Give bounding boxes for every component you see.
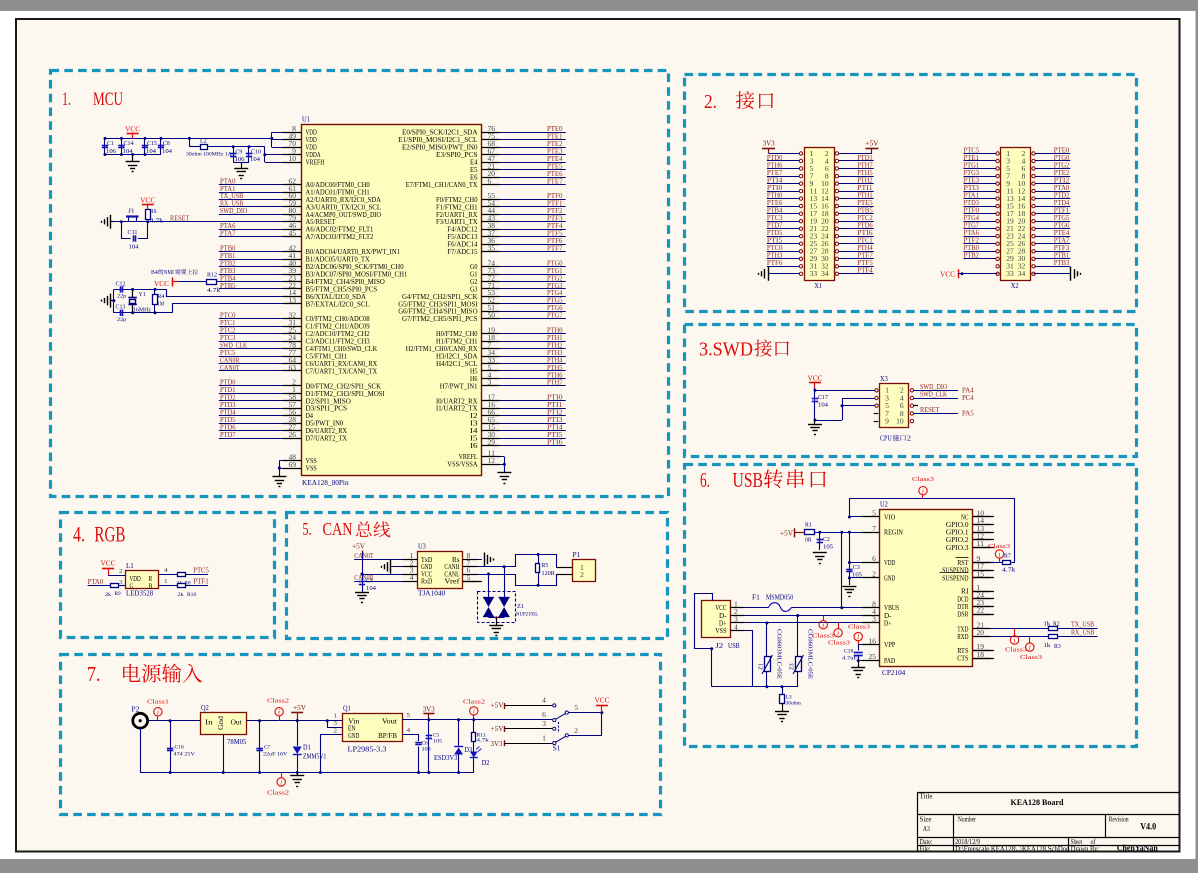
svg-text:H0/FTM2_CH0: H0/FTM2_CH0 [436,331,478,338]
svg-text:4.7k: 4.7k [477,737,490,743]
LED D2 [473,741,475,752]
svg-text:69: 69 [289,462,297,469]
svg-text:22: 22 [977,608,985,615]
wire U1 to port PTF5 [482,236,566,238]
wire U1 to port PTI5 [482,438,566,440]
resistor R4 1M [154,289,156,294]
svg-text:31: 31 [1006,264,1014,271]
svg-text:USB: USB [733,468,764,492]
svg-text:4: 4 [410,575,414,582]
switch S1 arm 1-2 [556,736,566,742]
wire U1 to port PTF0 [482,199,566,201]
svg-text:D2/SPI1_MISO: D2/SPI1_MISO [306,398,351,405]
wire U1 to port PTI4 [482,430,566,432]
svg-text:24: 24 [821,234,829,241]
svg-text:1: 1 [810,151,814,158]
ground Rs [484,553,486,567]
svg-text:5: 5 [574,705,578,712]
svg-text:F1/FTM2_CH1: F1/FTM2_CH1 [436,204,478,211]
svg-text:GPIO.2: GPIO.2 [946,537,969,544]
svg-text:61: 61 [289,186,297,193]
svg-text:E3/SPI0_PCS: E3/SPI0_PCS [436,152,478,159]
svg-text:RTS: RTS [957,648,969,655]
svg-text:2: 2 [119,568,123,575]
svg-text:R1: R1 [805,523,812,529]
wire X1 right pin row 14 [839,258,874,260]
capacitor C17 104 [814,390,816,420]
svg-text:11: 11 [1006,189,1014,196]
svg-text:5: 5 [467,575,471,582]
svg-text:C2: C2 [823,537,830,543]
wire U1 to port PTH3 [482,356,566,358]
svg-text:28: 28 [821,249,829,256]
svg-text:VPP: VPP [884,642,895,649]
X3 pin6 stub [914,405,918,407]
svg-text:ESD3V3: ESD3V3 [434,754,458,762]
svg-text:3: 3 [333,720,337,727]
svg-text:VIO: VIO [884,514,895,521]
svg-text:18: 18 [1018,211,1026,218]
svg-text:4: 4 [900,395,904,402]
section 1 MCU dashed box [51,71,669,497]
svg-text:20: 20 [488,171,496,178]
svg-text:P2: P2 [132,706,140,714]
svg-text:26: 26 [1018,241,1026,248]
svg-text:4: 4 [825,158,829,165]
connector X3 body CPU port [880,384,909,428]
ground X1 [768,267,770,281]
svg-text:B: B [149,583,153,590]
wire VCC to L1 pin2 [108,575,126,577]
svg-text:NMI: NMI [164,270,174,276]
wire net PTA0 to U1 [219,184,302,186]
wire X1 left pin row 11 [767,236,799,238]
svg-text:P1: P1 [573,551,581,559]
ground swd [814,420,816,424]
svg-text:39: 39 [289,268,297,275]
svg-text:+5V: +5V [780,529,793,537]
svg-text:CG0603MLC-05E: CG0603MLC-05E [776,629,782,679]
wire TXD [973,628,1048,630]
svg-text:1: 1 [333,713,337,720]
wire CANH net [463,555,572,568]
LED L1 LED3528 body [126,571,159,589]
svg-text:U2: U2 [880,501,888,509]
svg-text:Q2: Q2 [201,704,209,712]
ground symbol power rail [296,771,299,774]
svg-text:A2/UART0_RX/I2C0_SDA: A2/UART0_RX/I2C0_SDA [306,197,382,204]
svg-text:i: i [822,621,824,629]
svg-text:29: 29 [1006,256,1014,263]
svg-text:33: 33 [1006,271,1014,278]
wire U3 Rs to ground [463,559,482,561]
svg-text:NC: NC [961,514,969,521]
svg-text:U3: U3 [418,543,426,551]
capacitor C18 4.7uF [859,645,880,651]
wire X2 right pin row 13 [1035,251,1070,253]
svg-text:Z3: Z3 [790,663,796,670]
wire X1 right pin row 8 [839,213,874,215]
wire CANL net [463,575,572,586]
wire X2 right pin row 14 [1035,258,1070,260]
wire X1 right pin row 4 [839,183,874,185]
wire net PTB1 to U1 [219,259,302,261]
svg-text:C8: C8 [163,141,170,147]
svg-text:C5/FTM1_CH1: C5/FTM1_CH1 [306,354,348,361]
svg-text:13: 13 [1006,196,1014,203]
capacitor C11 104 [122,222,131,239]
U2 chip body CP2104 [880,510,973,667]
section 2 dashed box [685,75,1137,312]
svg-text:i: i [1014,637,1016,645]
svg-text:C11: C11 [128,230,138,236]
wire VDD stub [849,562,879,564]
wire X2 left pin row 2 [964,168,996,170]
svg-text:19: 19 [1006,219,1014,226]
svg-text:C12: C12 [116,281,126,287]
wire U1 to port PTH0 [482,333,566,335]
svg-text:103: 103 [422,747,431,753]
svg-text:Class2: Class2 [463,699,485,706]
wire X2 right pin row 15 [1035,266,1070,268]
wire X2 left pin row 12 [964,243,996,245]
svg-text:F3/UART1_TX: F3/UART1_TX [436,219,478,226]
wire J2 shield to bottom rail [711,649,713,687]
wire L1 R output [159,574,178,576]
svg-text:TxD: TxD [421,557,432,564]
wire net PTA7 to U1 [219,236,302,238]
svg-text:SWD_DIO: SWD_DIO [220,207,247,215]
svg-text:120R: 120R [542,571,555,577]
wire RESET from X3 pin8 [914,413,958,415]
capacitor C16 474 25V [170,721,172,773]
wire U1 to port PTH1 [482,341,566,343]
U3 pin stubs overlay [403,559,418,561]
svg-text:G3: G3 [470,286,478,293]
svg-text:LP2985-3.3: LP2985-3.3 [348,746,387,754]
svg-text:R12: R12 [207,273,217,279]
resistor R11 4.7k [473,720,475,732]
svg-text:18: 18 [821,211,829,218]
wire J2 D+ to U2 [730,622,879,624]
directive Class3 on VPP [854,632,862,640]
svg-text:VCC: VCC [808,375,823,383]
svg-text:3V3: 3V3 [423,705,435,713]
section 5 dashed box [287,513,668,639]
svg-text:5: 5 [1006,166,1010,173]
svg-text:Y1: Y1 [139,291,146,298]
svg-text:A0/ADC00/FTM0_CH0: A0/ADC00/FTM0_CH0 [306,182,371,189]
svg-text:25: 25 [1006,241,1014,248]
svg-text:ZMM5V1: ZMM5V1 [303,753,327,761]
wire Q1 vin/en tie [328,721,343,728]
svg-text:X1: X1 [814,282,822,290]
svg-text:3.SWD: 3.SWD [699,340,753,361]
svg-text:VCC: VCC [154,280,169,288]
svg-text:Size: Size [920,816,932,824]
wire X1 left pin row 12 [767,243,799,245]
svg-text:31: 31 [810,264,818,271]
wire Q1 vout rail [402,719,552,721]
section 4 dashed box [61,513,275,638]
wire U1 to port PTF7 [482,251,566,253]
wire net TX_USB to U1 [219,199,302,201]
svg-text:LED3528: LED3528 [126,590,154,598]
svg-text:i: i [922,487,924,495]
varistor Z1 CG0603MLC-05E [766,623,768,657]
svg-text:A1/ADC01/FTM0_CH1: A1/ADC01/FTM0_CH1 [306,189,370,196]
svg-text:104: 104 [250,157,260,163]
svg-text:Class1: Class1 [147,698,169,705]
wire net CAN0R to U1 [219,363,302,365]
svg-text:S1: S1 [553,745,561,753]
svg-text:14: 14 [1018,196,1026,203]
wire RXD [973,636,1048,638]
svg-text:47: 47 [488,156,496,163]
wire U1 to port PTE3 [482,154,566,156]
svg-text:G1: G1 [470,271,478,278]
power jack P2 [133,713,148,728]
ground C2 [813,552,827,554]
wire X1 left pin row 3 [767,176,799,178]
ground X2 [1070,267,1072,281]
wire +5V to X1 pin2 [839,153,872,155]
svg-text:B4: B4 [151,270,158,276]
directive Class3 on D- [819,621,827,629]
directive Class2 top [275,708,283,716]
wire X1 left pin row 10 [767,228,799,230]
svg-text:PTB4: PTB4 [220,274,236,282]
wire X2 left pin row 0 [964,153,996,155]
wire U1 to port PTH5 [482,370,566,372]
wire X1 right pin row 7 [839,206,874,208]
svg-text:4.: 4. [73,522,85,547]
svg-text:2: 2 [907,435,911,443]
svg-text:+5V: +5V [491,725,504,733]
svg-text:2: 2 [574,728,578,735]
wire net PTB2 to U1 [219,266,302,268]
svg-text:474 25V: 474 25V [174,751,195,757]
svg-text:B3/ADC07/SPI0_MOSI/FTM0_CH1: B3/ADC07/SPI0_MOSI/FTM0_CH1 [306,271,408,278]
svg-text:E4: E4 [470,160,478,167]
svg-text:X2: X2 [1011,282,1019,290]
svg-text:E7/FTM1_CH1/CAN0_TX: E7/FTM1_CH1/CAN0_TX [406,182,478,189]
svg-text:104: 104 [818,403,828,409]
svg-text:PTF1: PTF1 [193,578,209,586]
svg-text:Q1: Q1 [343,705,351,713]
connector X2 body [1001,148,1031,281]
wire X1 left pin row 4 [767,183,799,185]
regulator Q2 78M05 body [201,713,247,735]
svg-text:16: 16 [821,204,829,211]
wire U1 to port PTI0 [482,400,566,402]
svg-text:5: 5 [407,712,411,719]
svg-text:8: 8 [1022,174,1026,181]
wire net PTC1 to U1 [219,326,302,328]
capacitor C7 22uF 16V [259,721,261,773]
wire P2 to regulator [147,720,201,722]
wire net PTA6 to U1 [219,229,302,231]
svg-text:RGB: RGB [94,522,125,547]
resistor R5 120R termination [538,555,540,564]
wire X2 left pin row 7 [964,206,996,208]
svg-text:4.7k: 4.7k [150,219,163,225]
capacitor C5 105 [428,720,430,773]
svg-text:Class3: Class3 [812,633,834,640]
svg-text:R: R [149,576,153,583]
wire vdd pins vertical [271,132,273,147]
svg-text:9: 9 [1006,181,1010,188]
wire GND stub [849,577,879,579]
svg-text:6: 6 [825,166,829,173]
svg-text:25: 25 [810,241,818,248]
svg-text:34: 34 [821,271,829,278]
svg-text:File:: File: [920,845,931,853]
wire X2 right pin row 5 [1035,191,1070,193]
svg-text:15: 15 [810,204,818,211]
wire net PTD2 to U1 [219,400,302,402]
svg-text:PTG7: PTG7 [547,312,563,320]
svg-text:9: 9 [810,181,814,188]
connector X1 body [805,148,835,281]
fuse F1 MSMD050 [730,607,768,609]
svg-text:2: 2 [333,727,337,734]
svg-text:Class3: Class3 [988,543,1010,550]
svg-text:20: 20 [821,219,829,226]
svg-text:H3/I2C1_SDA: H3/I2C1_SDA [436,354,478,361]
svg-text:G7/FTM2_CH5/SPI1_PCS: G7/FTM2_CH5/SPI1_PCS [402,316,478,323]
svg-text:PTD7: PTD7 [220,431,236,439]
svg-text:CAN: CAN [323,519,353,539]
wire J2 VSS down [730,631,752,687]
svg-text:12: 12 [1018,189,1026,196]
directive Class3 on VIO rail [919,487,927,495]
svg-text:Revision: Revision [1109,816,1129,824]
ground C3 [842,586,856,588]
svg-text:24: 24 [1018,234,1026,241]
svg-text:Class3: Class3 [1005,647,1027,654]
svg-text:E0/SPI0_SCK/I2C1_SDA: E0/SPI0_SCK/I2C1_SDA [402,130,478,137]
svg-text:27: 27 [1006,249,1014,256]
svg-text:D3/SPI1_PCS: D3/SPI1_PCS [306,406,348,413]
svg-text:VDD: VDD [306,137,317,144]
svg-text:RXD: RXD [957,634,968,641]
svg-text:D0/FTM2_CH2/SPI1_SCK: D0/FTM2_CH2/SPI1_SCK [306,383,382,390]
svg-text:i: i [857,633,859,641]
wire X2 right pin row 7 [1035,206,1070,208]
capacitor C6 103 [415,742,421,744]
wire X2 left pin row 10 [964,228,996,230]
svg-text:V4.0: V4.0 [1140,822,1156,832]
svg-text:C6/UART1_RX/CAN0_RX: C6/UART1_RX/CAN0_RX [306,361,378,368]
wire net PTB5 to U1 [219,288,302,290]
svg-text:I2: I2 [470,413,478,420]
svg-text:DCD: DCD [957,596,968,603]
ground Z1 [489,625,503,627]
svg-text:DTR: DTR [957,604,969,611]
svg-text:I1/UART2_TX: I1/UART2_TX [436,406,478,413]
svg-text:VDD: VDD [130,576,141,583]
wire U1 to port PTH4 [482,363,566,365]
wire U1 to port PTF3 [482,221,566,223]
svg-text:VSS: VSS [306,458,317,465]
wire VCC to X2 pin33 [958,273,998,275]
svg-text:11: 11 [810,189,818,196]
svg-text:3V3: 3V3 [763,140,775,148]
wire X3 pins 3-5 to ground [842,398,875,400]
svg-text:B2/ADC06/SPI0_SCK/FTM0_CH0: B2/ADC06/SPI0_SCK/FTM0_CH0 [306,264,405,271]
svg-text:27: 27 [810,249,818,256]
VIO rail wire [850,499,1015,563]
svg-text:R10: R10 [187,592,196,598]
svg-text:23: 23 [1006,234,1014,241]
svg-text:B7/EXTAL/I2C0_SCL: B7/EXTAL/I2C0_SCL [306,301,370,308]
ground PAD [851,667,865,669]
svg-text:Drawn By:: Drawn By: [1071,845,1100,853]
svg-text:I3: I3 [470,421,478,428]
wire L1 B output [159,585,178,587]
regulator Q1 LP2985-3.3 body [343,714,403,742]
svg-text:78M05: 78M05 [227,738,247,746]
svg-text:U1: U1 [302,116,310,124]
wire U1 to port PTF4 [482,229,566,231]
wire U1 to port PTI2 [482,415,566,417]
svg-text:4.7k: 4.7k [207,288,220,294]
svg-text:26: 26 [821,241,829,248]
svg-text:VCC: VCC [421,571,433,578]
svg-text:3: 3 [542,721,546,728]
svg-text:D6/UART2_RX: D6/UART2_RX [306,428,348,435]
svg-text:MSMD050: MSMD050 [766,594,794,602]
ground crystal [110,294,112,308]
wire U1 to port PTE5 [482,169,566,171]
svg-text:H1/FTM2_CH1: H1/FTM2_CH1 [436,339,478,346]
X3 pin7 pin9 stubs [874,413,879,415]
svg-text:Rs: Rs [452,557,460,564]
svg-text:GND: GND [348,733,359,740]
wire X2 left pin row 9 [964,221,996,223]
wire X2 left pin row 1 [964,160,996,162]
svg-text:L1: L1 [126,562,134,570]
crystal Y1 16MHz [132,289,134,297]
svg-text:D7/UART2_TX: D7/UART2_TX [306,436,348,443]
svg-text:3: 3 [410,568,414,575]
wire 3V3 to X1 pin1 [769,153,800,155]
svg-text:1: 1 [977,585,981,592]
svg-text:Vout: Vout [382,718,397,725]
wire X2 right pin row 1 [1035,160,1070,162]
svg-text:D+: D+ [719,620,727,627]
svg-text:SUSPEND: SUSPEND [942,575,968,582]
wire U1 to port PTI1 [482,408,566,410]
wire X2 left pin row 11 [964,236,996,238]
svg-text:Class3: Class3 [1020,654,1042,661]
svg-text:J1: J1 [128,209,135,215]
svg-text:6.: 6. [700,468,710,492]
svg-text:CAN0T: CAN0T [354,552,374,560]
wire X2 right pin row 4 [1035,183,1070,185]
svg-text:G4/FTM2_CH2/SPI1_SCK: G4/FTM2_CH2/SPI1_SCK [402,294,478,301]
svg-text:SUSPEND: SUSPEND [942,568,968,575]
svg-text:G0: G0 [470,264,478,271]
svg-text:PAD: PAD [884,658,895,665]
reset pushbutton J1 circuit wire [114,221,302,223]
svg-text:VCC: VCC [940,270,955,278]
capacitor C14 104 [121,138,123,154]
wire X2 right pin row 8 [1035,213,1070,215]
svg-text:i: i [473,708,475,716]
svg-text:CANH: CANH [444,564,459,571]
